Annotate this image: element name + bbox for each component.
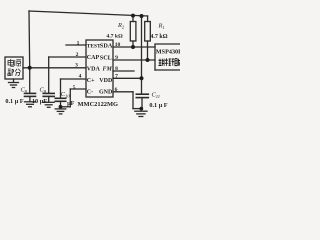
svg-text:10: 10 [115, 42, 121, 48]
svg-text:FM: FM [102, 67, 112, 73]
svg-text:SDA: SDA [100, 43, 113, 50]
svg-text:C-: C- [87, 89, 93, 95]
svg-text:3: 3 [75, 63, 78, 69]
svg-text:2: 2 [76, 52, 79, 58]
svg-text:VDA: VDA [87, 67, 101, 73]
svg-text:C+: C+ [87, 78, 95, 84]
svg-text:CAP: CAP [87, 55, 100, 61]
svg-text:5: 5 [73, 85, 76, 91]
svg-text:9: 9 [115, 55, 118, 61]
svg-text:0.1 µ F: 0.1 µ F [149, 102, 167, 109]
svg-text:7: 7 [115, 73, 118, 79]
svg-text:4.7 kΩ: 4.7 kΩ [150, 34, 167, 40]
svg-text:6: 6 [115, 87, 118, 93]
svg-text:MMC2122MG: MMC2122MG [78, 101, 118, 108]
svg-text:TEST: TEST [87, 43, 101, 49]
svg-text:µF: µF [67, 100, 75, 107]
svg-text:GND: GND [99, 89, 113, 95]
svg-text:4.7 kΩ: 4.7 kΩ [106, 34, 123, 40]
svg-text:MSP430F1: MSP430F1 [156, 49, 180, 56]
svg-text:VDD: VDD [99, 78, 113, 84]
svg-text:SCL: SCL [100, 55, 112, 62]
svg-text:1: 1 [77, 40, 80, 46]
svg-text:0.1 µ F: 0.1 µ F [5, 98, 23, 105]
svg-text:8: 8 [115, 66, 118, 72]
svg-text:10 µF: 10 µF [32, 98, 47, 105]
svg-text:4: 4 [79, 74, 82, 80]
